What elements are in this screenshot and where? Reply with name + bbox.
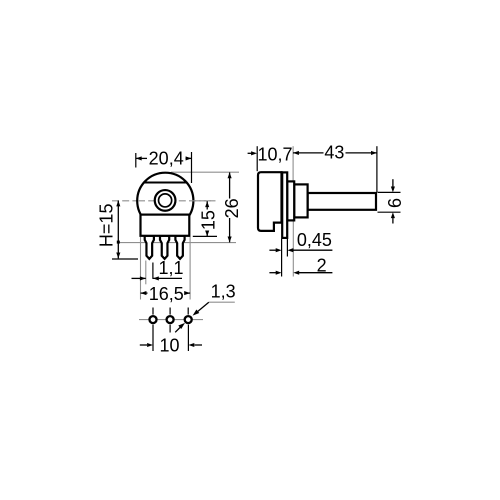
svg-text:26: 26 (222, 198, 242, 218)
svg-text:43: 43 (324, 143, 344, 163)
svg-text:16,5: 16,5 (149, 284, 184, 304)
svg-text:2: 2 (317, 255, 327, 275)
svg-text:10: 10 (159, 335, 179, 355)
svg-text:20,4: 20,4 (149, 148, 184, 168)
svg-text:1,1: 1,1 (158, 258, 183, 278)
svg-text:6: 6 (385, 198, 405, 208)
svg-text:H=15: H=15 (97, 204, 117, 248)
svg-text:10,7: 10,7 (257, 144, 292, 164)
svg-text:1,3: 1,3 (211, 282, 236, 302)
svg-text:0,45: 0,45 (297, 230, 332, 250)
svg-text:15: 15 (199, 210, 219, 230)
